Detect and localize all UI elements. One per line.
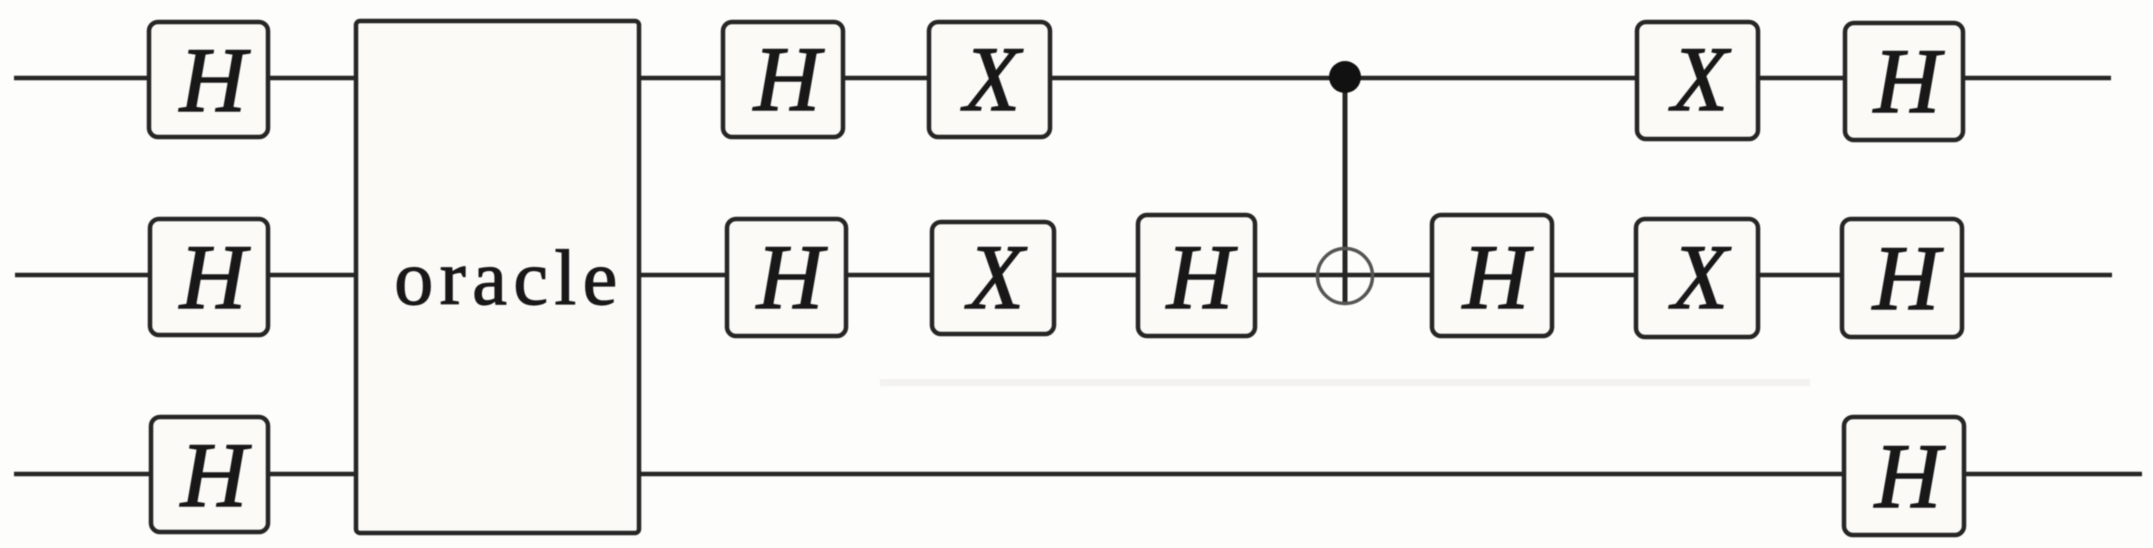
svg-text:H: H	[1872, 227, 1944, 329]
gate H q1 col9	[1842, 219, 1962, 337]
gate H q2 col1	[151, 417, 268, 532]
oracle box	[356, 21, 639, 533]
gate X q0 col4	[929, 22, 1050, 137]
svg-text:X: X	[1668, 28, 1732, 130]
svg-text:H: H	[179, 29, 251, 131]
svg-text:X: X	[960, 28, 1024, 130]
control dot q0	[1329, 61, 1361, 93]
CNOT target q1	[1318, 249, 1373, 304]
svg-text:H: H	[179, 226, 251, 328]
gate X q1 col4	[932, 222, 1054, 334]
gate H q1 col5	[1138, 215, 1255, 336]
svg-text:H: H	[180, 424, 252, 526]
wire q2	[14, 472, 2142, 477]
svg-text:H: H	[1873, 30, 1945, 132]
CZ vertical link	[1343, 78, 1348, 303]
svg-text:H: H	[756, 226, 828, 328]
svg-text:H: H	[1874, 425, 1946, 527]
gate H q1 col1	[150, 219, 268, 335]
gate X q0 col8	[1637, 22, 1758, 139]
gate H q1 col7	[1432, 215, 1552, 336]
svg-text:X: X	[1668, 226, 1732, 328]
gate H q0 col3	[723, 22, 843, 137]
wire q1	[15, 273, 2112, 278]
wire q0	[14, 76, 2111, 81]
svg-text:oracle: oracle	[394, 234, 624, 321]
svg-text:H: H	[753, 28, 825, 130]
gate H q0 col9	[1845, 23, 1963, 140]
svg-text:H: H	[1166, 226, 1238, 328]
gate X q1 col8	[1636, 219, 1758, 337]
gate H q0 col1	[149, 22, 268, 137]
svg-text:H: H	[1462, 226, 1534, 328]
scan artifact faint band	[880, 379, 1810, 386]
gate H q1 col3	[727, 219, 846, 336]
svg-text:X: X	[964, 226, 1028, 328]
gate H q2 col9	[1844, 417, 1964, 535]
